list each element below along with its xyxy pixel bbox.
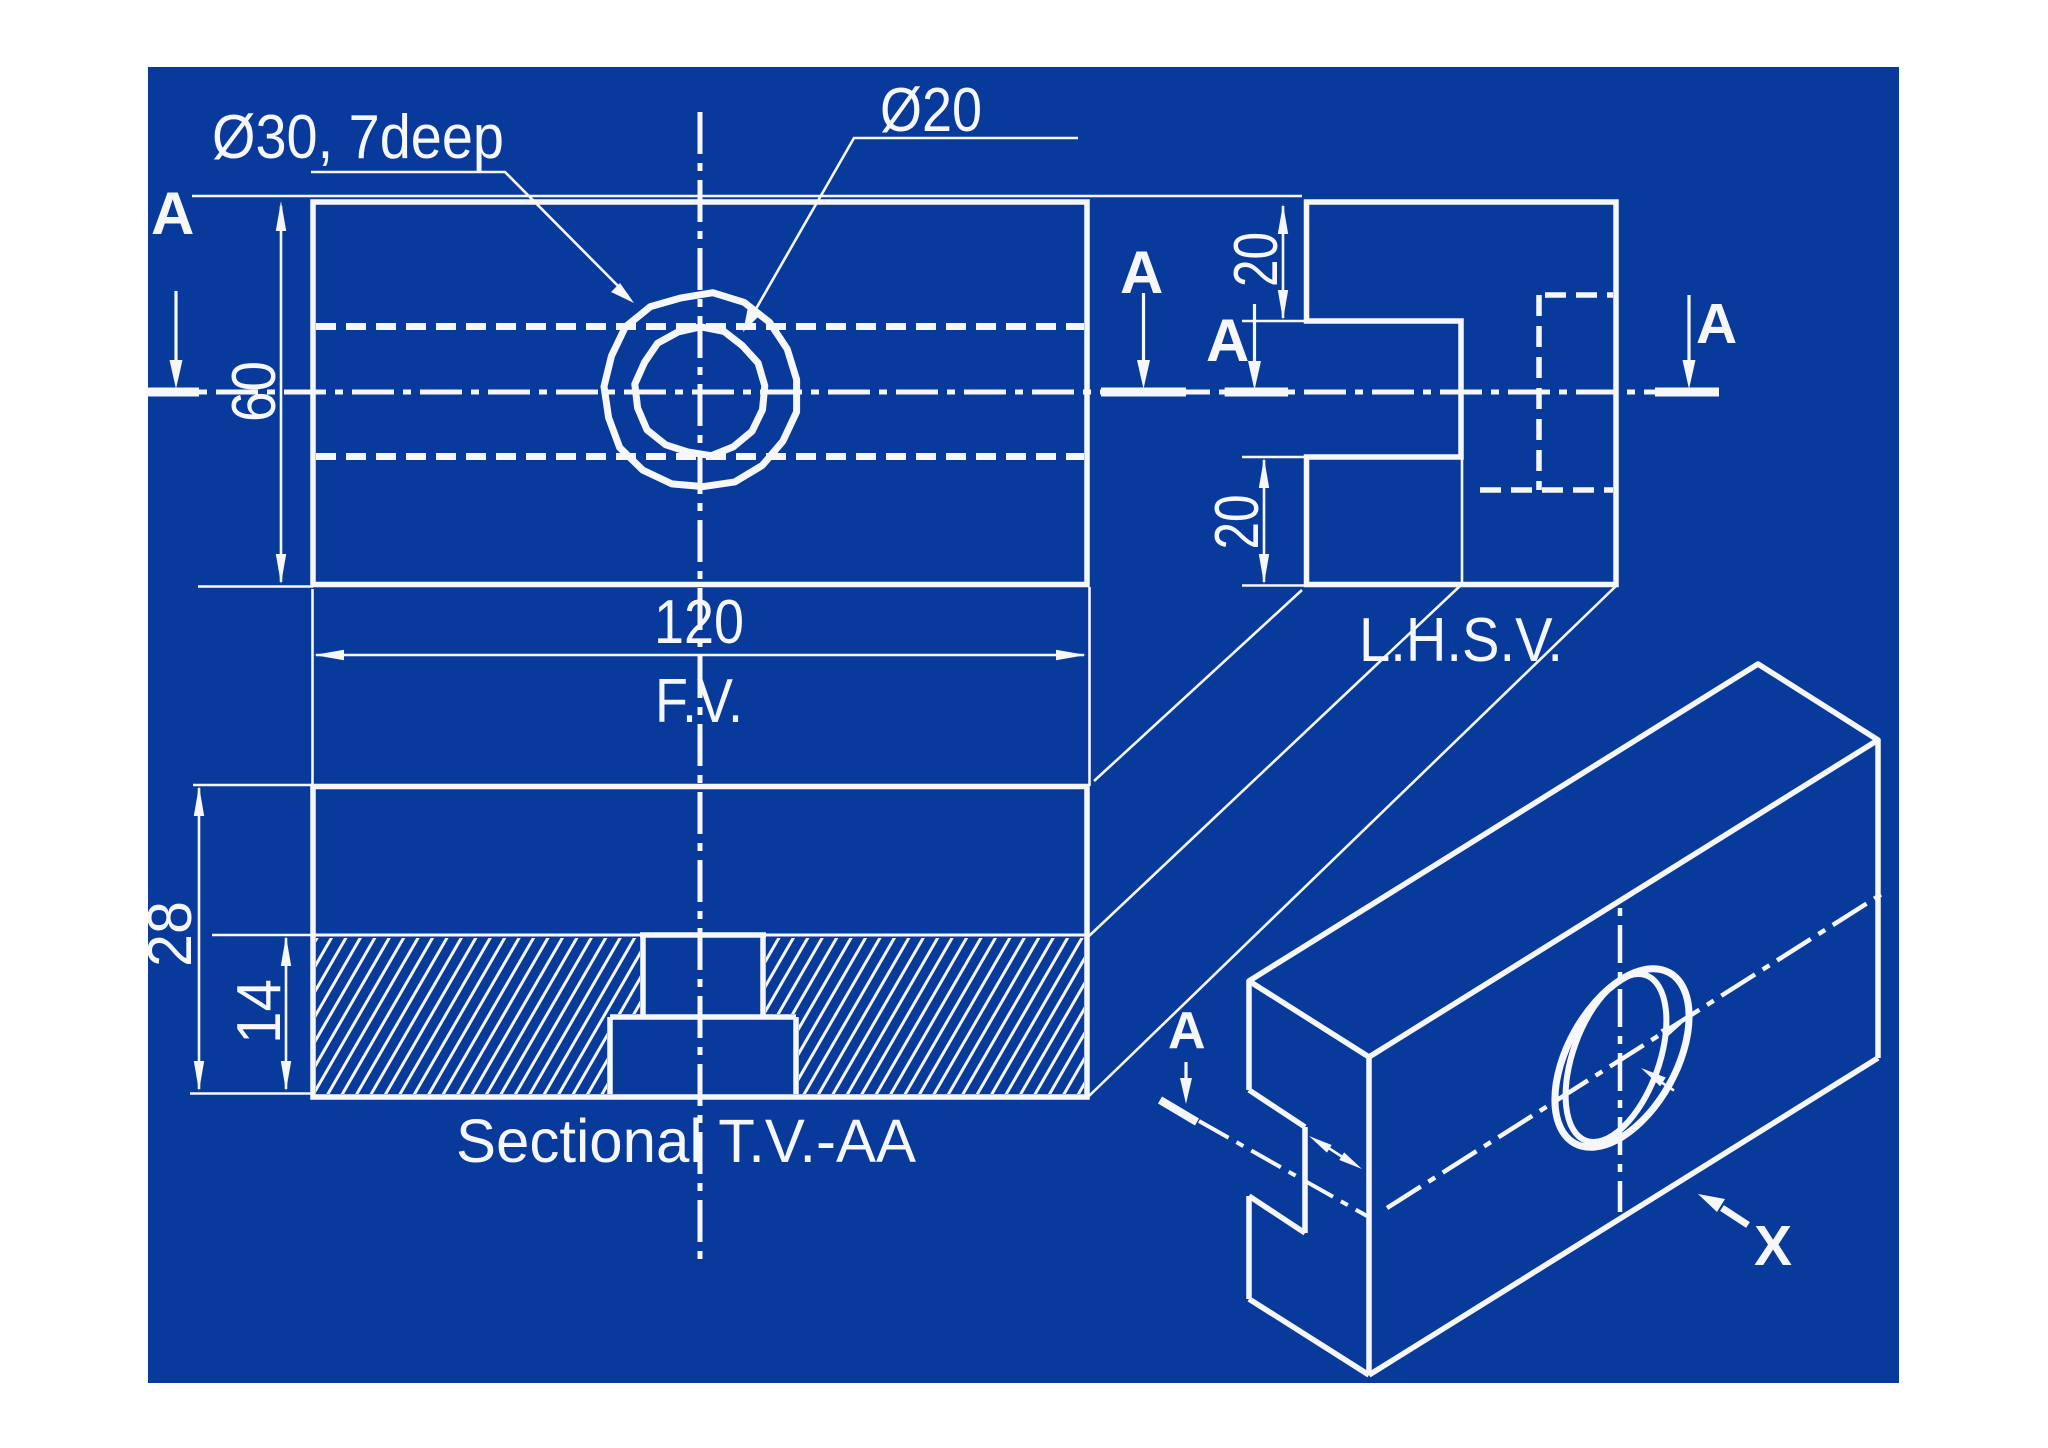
iso radius arrowhead (1641, 1068, 1666, 1086)
iso front-left vertical edge (1366, 1057, 1372, 1375)
section bar right (1655, 388, 1719, 397)
svg-text:60: 60 (220, 361, 289, 422)
iso top face (1249, 664, 1878, 1057)
section arrow right head (1683, 360, 1696, 389)
iso notch bottom edge (1249, 1196, 1305, 1233)
iso radius arrow along v (1660, 1082, 1674, 1091)
mitre line c (1089, 586, 1616, 1096)
slot step edge (610, 1014, 796, 1020)
svg-text:Sectional T.V.-AA: Sectional T.V.-AA (456, 1107, 916, 1175)
counterbore hidden bottom (1480, 487, 1613, 493)
iso hole axis centerline (1387, 890, 1888, 1208)
svg-text:20: 20 (1222, 232, 1291, 287)
dim 120 arrow right (1056, 650, 1086, 660)
dim 28 arrow up (194, 786, 204, 816)
section arrow mid1 shaft (1142, 293, 1145, 366)
iso left face bottom edge (1249, 1299, 1369, 1375)
svg-text:A: A (1206, 307, 1249, 374)
svg-text:L.H.S.V.: L.H.S.V. (1359, 606, 1563, 675)
iso notch arrow 2 (1339, 1152, 1362, 1169)
dim 20u arrow up (1278, 204, 1288, 234)
leader O20 arrowhead (743, 307, 761, 332)
dim 20 lower line (1263, 460, 1266, 582)
svg-text:A: A (1696, 292, 1737, 356)
section bar mid1 (1101, 388, 1186, 397)
section arrow mid2 head (1248, 361, 1261, 390)
dim 28 line (198, 788, 201, 1089)
svg-text:X: X (1754, 1214, 1792, 1278)
iso notch top edge (1249, 1090, 1305, 1127)
counterbore hidden vertical (1536, 295, 1542, 490)
hole notch top edge (640, 932, 766, 938)
counterbore circle O30 (604, 293, 797, 487)
iso section A arrow shaft (1184, 1062, 1187, 1088)
hatch left region (316, 938, 640, 1094)
dim 20u arrow down (1278, 290, 1288, 320)
dim 20l arrow up (1259, 458, 1269, 488)
projection F.V. to T.V. left (311, 589, 314, 784)
dim 60 arrow down (276, 554, 286, 584)
T.V. 14 extension (212, 934, 316, 937)
section bar mid2 (1225, 388, 1288, 397)
iso counterbore ellipse (1527, 946, 1717, 1169)
slot right edge (793, 1017, 799, 1094)
iso hole vertical centerline (1618, 905, 1623, 1212)
leader O30 arrowhead (611, 283, 634, 303)
dim 14 arrow down (281, 1061, 291, 1091)
projection F.V. to T.V. right (1088, 587, 1091, 786)
svg-text:F.V.: F.V. (655, 667, 743, 736)
dim 120 arrow left (314, 650, 344, 660)
iso notch inner vertical edge (1302, 1127, 1308, 1233)
hole notch right edge (760, 935, 766, 1017)
dim 60 line (280, 206, 283, 582)
dim 28 arrow down (194, 1061, 204, 1091)
iso section A arrowhead (1180, 1078, 1192, 1104)
dim 14 line (285, 938, 288, 1089)
hole notch left edge (640, 935, 646, 1017)
iso front bottom edge (1369, 1058, 1878, 1375)
hole circle O20 (635, 327, 765, 456)
vertical centerline of F.V. (698, 112, 703, 1267)
iso notch arrow 1 (1309, 1136, 1332, 1153)
section band top line left (313, 934, 643, 937)
iso hole inner ellipse (1545, 961, 1686, 1156)
mitre line b (1089, 585, 1461, 936)
X label arrowhead (1698, 1194, 1725, 1212)
dim 60 arrow up (276, 201, 286, 231)
blueprint blue sheet (148, 67, 1899, 1383)
iso back-left vertical edge lower (1246, 1196, 1252, 1299)
F.V. outline rectangle (313, 202, 1087, 585)
leader O30 (311, 172, 628, 296)
section arrow mid2 shaft (1253, 304, 1256, 367)
dim 20l arrow down (1259, 554, 1269, 584)
iso back-left vertical edge upper (1246, 981, 1252, 1090)
horizontal centerline (section plane A-A) (148, 390, 1719, 395)
counterbore hidden top (1545, 292, 1613, 298)
iso section trace bar (1160, 1100, 1197, 1122)
T.V. bottom extension (190, 1092, 313, 1095)
hatch right region (766, 938, 1084, 1094)
svg-text:Ø20: Ø20 (880, 76, 982, 145)
dim 14 arrow up (281, 936, 291, 966)
hidden line upper (hole) (316, 323, 1084, 330)
svg-text:20: 20 (1203, 495, 1272, 550)
section arrow mid1 head (1137, 360, 1150, 389)
F.V. bottom extension (198, 585, 313, 588)
LHSV slot top extension (1242, 320, 1306, 323)
iso section trace centerline (1199, 1121, 1367, 1216)
mitre line a (1094, 590, 1302, 781)
section arrow right shaft (1687, 295, 1690, 366)
svg-text:28: 28 (136, 901, 205, 967)
Sectional T.V. outline (313, 787, 1087, 1098)
hidden line lower (hole) (316, 453, 1084, 460)
top projection line (192, 195, 1302, 198)
X label arrow shaft (1722, 1208, 1748, 1225)
slot left edge (607, 1017, 613, 1094)
T.V. top extension (193, 784, 313, 787)
dim 20 upper line (1282, 206, 1285, 318)
dim 120 line (316, 654, 1084, 657)
svg-text:14: 14 (225, 979, 294, 1044)
L.H.S.V. outline with slot (1307, 202, 1617, 585)
section band top line right (763, 934, 1087, 937)
leader O20 (749, 138, 1078, 321)
section arrow left shaft (174, 291, 177, 366)
svg-text:Ø30, 7deep: Ø30, 7deep (212, 103, 504, 172)
svg-text:120: 120 (654, 588, 744, 657)
LHSV bottom extension (1242, 584, 1306, 587)
svg-text:A: A (1120, 239, 1163, 306)
section bar left (148, 388, 199, 397)
iso right vertical edge (1875, 740, 1881, 1058)
LHSV slot bottom extension (1242, 456, 1306, 459)
slot inner projection line (1461, 457, 1464, 584)
svg-text:A: A (1168, 1002, 1206, 1060)
section arrow left head (170, 360, 183, 389)
iso hole axis arrowhead (1660, 1019, 1687, 1038)
iso notch dim double arrow shaft (1327, 1147, 1344, 1158)
svg-text:A: A (151, 180, 194, 247)
